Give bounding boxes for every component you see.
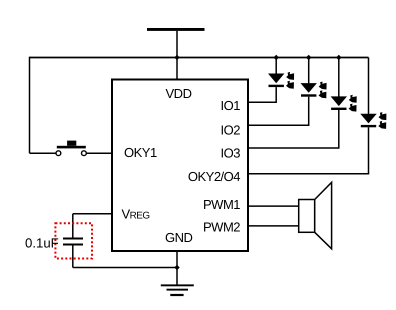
- wire capacitor to GND net: [73, 246, 177, 268]
- LED D3: [331, 95, 357, 112]
- wire cathode LED D2: [248, 97, 309, 126]
- junction dot GND net: [174, 265, 179, 270]
- wire left rail down to button: [30, 57, 56, 154]
- svg-text:OKY2/O4: OKY2/O4: [188, 169, 240, 184]
- pin label PWM2: [203, 220, 240, 235]
- junction dot VDD rail: [174, 55, 179, 60]
- svg-text:GND: GND: [165, 230, 193, 245]
- junction dot rail LED D2: [306, 55, 311, 60]
- VDD power bar symbol: [147, 28, 205, 31]
- IC U1 body: [112, 80, 248, 252]
- wire anode LED D3: [338, 58, 340, 98]
- wire pin PWM1 to speaker: [248, 205, 299, 207]
- wire anode LED D2: [308, 58, 310, 85]
- pin label IO3: [221, 146, 241, 161]
- wire VDD top rail: [30, 57, 369, 59]
- pin label IO2: [221, 122, 241, 137]
- pin label VDD: [166, 86, 192, 101]
- junction dot rail LED D3: [336, 55, 341, 60]
- value label 0.1uF: [25, 235, 59, 250]
- pin label OKY1: [124, 145, 157, 160]
- capacitor C1: [63, 238, 83, 246]
- LED D2: [301, 82, 327, 99]
- push button S1: [56, 141, 86, 156]
- pin label OKY2/O4: [188, 169, 240, 184]
- svg-text:PWM2: PWM2: [203, 220, 240, 235]
- pin label IO1: [221, 98, 241, 113]
- pin label PWM1: [203, 197, 240, 212]
- ground symbol: [161, 284, 194, 296]
- svg-text:IO2: IO2: [221, 122, 241, 137]
- junction dot rail LED D1: [274, 55, 279, 60]
- svg-text:OKY1: OKY1: [124, 145, 157, 160]
- wire pin PWM2 to speaker: [248, 225, 299, 227]
- wire cathode LED D1: [248, 87, 277, 102]
- wire anode LED D4: [368, 58, 370, 115]
- LED D1: [268, 72, 294, 89]
- svg-text:IO3: IO3: [221, 146, 241, 161]
- wire pin GND down: [176, 251, 178, 285]
- wire anode LED D1: [275, 58, 277, 75]
- svg-text:0.1uF: 0.1uF: [25, 235, 59, 250]
- wire cathode LED D3: [248, 110, 340, 148]
- svg-text:VDD: VDD: [166, 86, 192, 101]
- svg-text:IO1: IO1: [221, 98, 241, 113]
- LED D4: [360, 112, 386, 129]
- wire cathode LED D4: [248, 127, 369, 173]
- speaker LS1: [299, 182, 332, 249]
- highlight box around capacitor: [55, 223, 92, 258]
- svg-text:PWM1: PWM1: [203, 197, 240, 212]
- wire pin VREG to capacitor: [73, 214, 112, 238]
- wire VDD bar to IC pin VDD: [176, 31, 178, 80]
- wire button to pin OKY1: [86, 152, 112, 154]
- pin label VREG: [122, 207, 150, 222]
- pin label GND: [165, 230, 193, 245]
